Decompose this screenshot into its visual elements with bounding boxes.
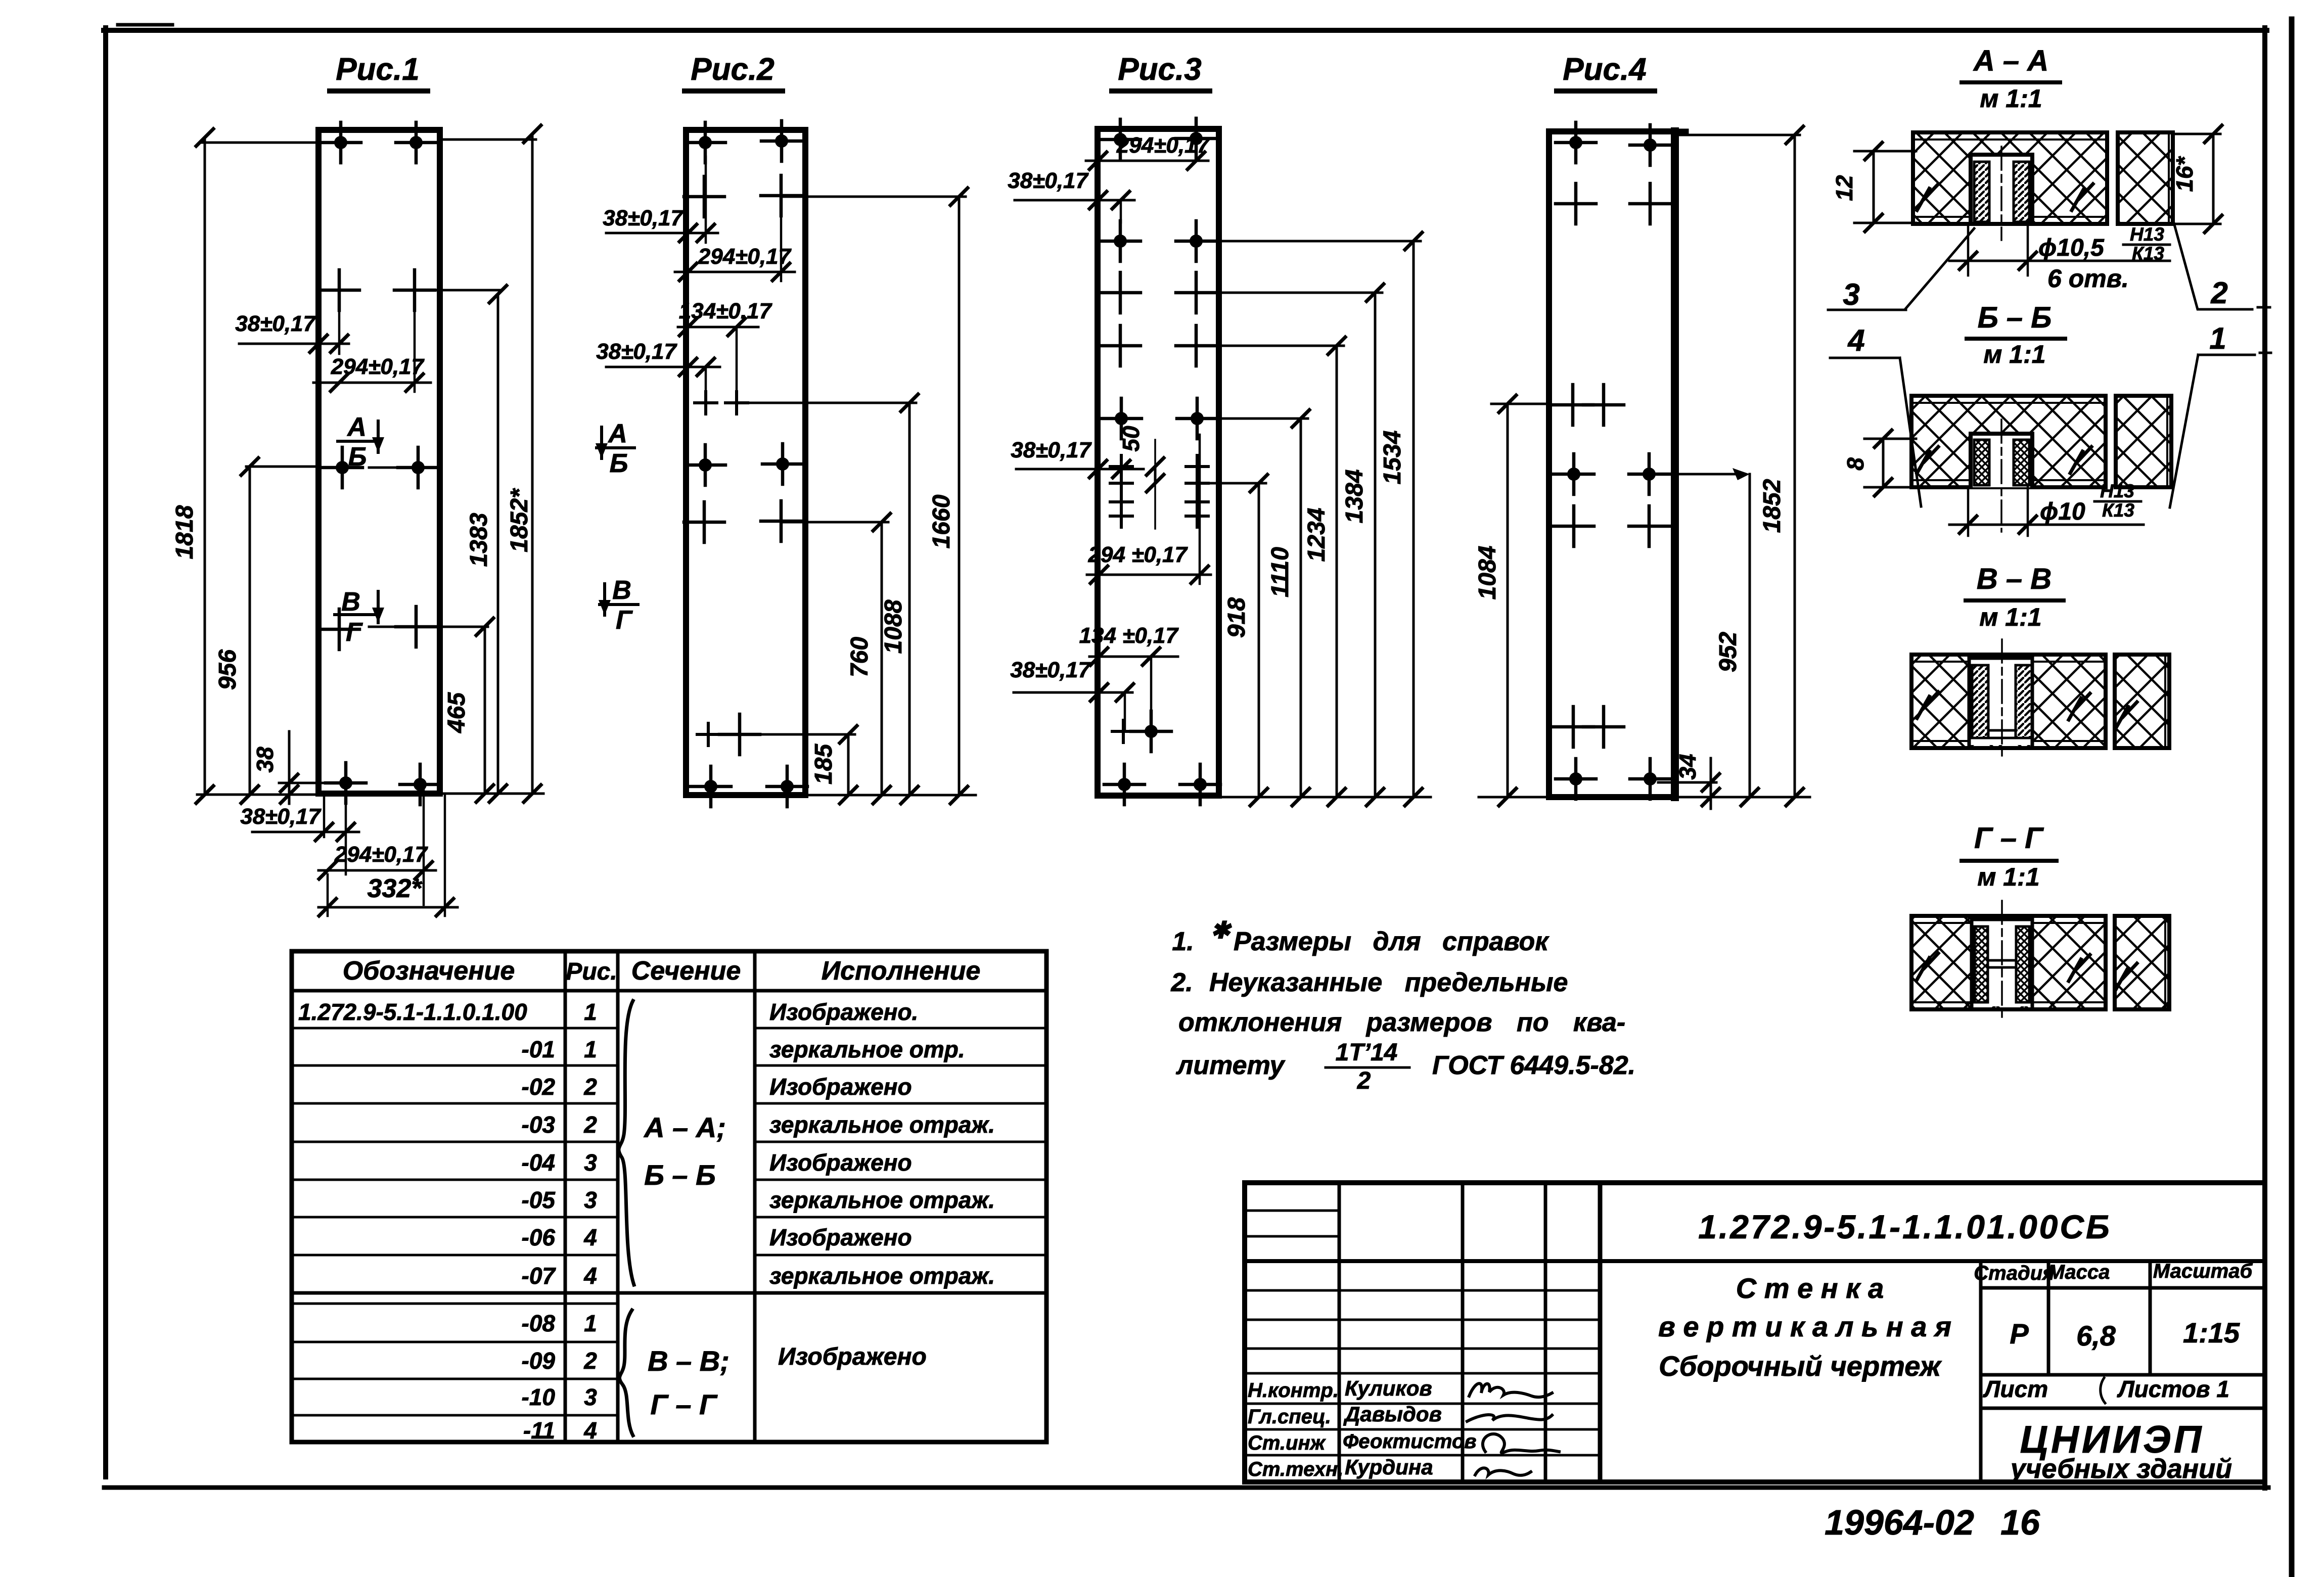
hole P3 row5-right bbox=[1177, 398, 1217, 439]
hole P4 row4-right bbox=[1629, 454, 1669, 494]
svg-text:Рис.3: Рис.3 bbox=[1118, 52, 1201, 87]
section Б-Б main block bbox=[1911, 396, 2106, 487]
hole P1 row2-left bbox=[319, 270, 359, 310]
P3 right extension lines bbox=[1196, 240, 1421, 243]
panel Рис.1 outline bbox=[318, 130, 440, 794]
svg-text:Ст.техн.: Ст.техн. bbox=[1248, 1458, 1343, 1480]
dimension 34 (P4 bottom) bbox=[1658, 781, 1716, 784]
svg-text:1.272.9-5.1-1.1.0.1.00: 1.272.9-5.1-1.1.0.1.00 bbox=[298, 999, 527, 1025]
svg-text:2: 2 bbox=[2210, 276, 2227, 310]
svg-text:Куликов: Куликов bbox=[1345, 1376, 1432, 1400]
svg-text:38±0,17: 38±0,17 bbox=[1008, 168, 1089, 193]
svg-text:-06: -06 bbox=[522, 1224, 556, 1250]
svg-text:956: 956 bbox=[214, 650, 241, 690]
hole P3 cluster right bbox=[1186, 491, 1208, 513]
svg-text:1383: 1383 bbox=[466, 513, 492, 567]
dimension 1534 (P3 right) bbox=[1405, 233, 1422, 806]
dimension 1852* (P1 right) bbox=[440, 138, 536, 141]
section Б-Б bolt recess bbox=[1971, 420, 2032, 532]
sheet frame left border bbox=[103, 28, 108, 1477]
hole P4 row2-left bbox=[1556, 183, 1596, 224]
svg-text:В – В;: В – В; bbox=[648, 1345, 730, 1377]
svg-text:294±0,17: 294±0,17 bbox=[698, 244, 792, 269]
scan artifact line top-left bbox=[118, 23, 172, 27]
svg-text:3: 3 bbox=[584, 1149, 597, 1176]
svg-text:В: В bbox=[612, 576, 631, 605]
svg-text:1: 1 bbox=[584, 999, 597, 1025]
scanned paper edge line bbox=[2289, 19, 2295, 1577]
hole P4 row3-mid bbox=[1583, 385, 1624, 425]
svg-text:4: 4 bbox=[583, 1224, 597, 1250]
svg-text:465: 465 bbox=[443, 692, 470, 733]
title block: document number cell bbox=[1600, 1259, 2265, 1263]
notes text bbox=[1170, 917, 1635, 1094]
break mark А-А right bbox=[2072, 184, 2093, 210]
svg-text:Н13: Н13 bbox=[2130, 224, 2164, 245]
svg-text:760: 760 bbox=[846, 637, 873, 677]
svg-text:К13: К13 bbox=[2132, 243, 2164, 264]
section А-А bolt recess bbox=[1971, 147, 2032, 240]
svg-text:1384: 1384 bbox=[1341, 470, 1368, 524]
dimension 12 (А-А) bbox=[1854, 150, 1916, 153]
svg-text:2: 2 bbox=[1357, 1068, 1371, 1094]
hole P4 top-right bbox=[1630, 125, 1670, 165]
svg-text:185: 185 bbox=[810, 744, 837, 784]
svg-text:К13: К13 bbox=[2102, 500, 2134, 521]
dimension 16* (А-А) bbox=[2174, 133, 2220, 135]
svg-text:1.272.9-5.1-1.1.01.00СБ: 1.272.9-5.1-1.1.01.00СБ bbox=[1698, 1208, 2112, 1245]
hole P3 cluster right bbox=[1186, 505, 1208, 527]
P1 bottom-right extension bbox=[440, 793, 543, 795]
hole P3 row10-left bbox=[1112, 720, 1134, 743]
panel Рис.2 outline bbox=[686, 130, 805, 795]
svg-text:-01: -01 bbox=[522, 1036, 555, 1062]
hole P3 row5-left bbox=[1101, 398, 1142, 439]
svg-text:2.: 2. bbox=[1170, 968, 1193, 997]
svg-text:Сечение: Сечение bbox=[631, 956, 741, 986]
P1 bottom extension baseline bbox=[197, 794, 327, 796]
hole P3 row10-mid bbox=[1131, 711, 1171, 752]
hole P3 bottom-left bbox=[1104, 764, 1145, 805]
svg-text:м 1:1: м 1:1 bbox=[1980, 84, 2042, 113]
hole P4 row5-right bbox=[1629, 506, 1669, 546]
hole P3 top-right bbox=[1176, 118, 1216, 159]
table braces bbox=[619, 1001, 634, 1285]
hole P4 row6-left bbox=[1553, 707, 1593, 747]
hole P2 А-row left bbox=[685, 445, 725, 485]
svg-text:Г: Г bbox=[346, 618, 363, 647]
table header texts bbox=[343, 956, 981, 986]
Б-Б hole dimension line bbox=[1967, 487, 1970, 536]
table col1 designations bbox=[298, 999, 556, 1444]
svg-text:38±0,17: 38±0,17 bbox=[235, 311, 316, 336]
svg-text:Г: Г bbox=[616, 606, 633, 635]
svg-text:-09: -09 bbox=[522, 1348, 556, 1374]
break mark Г-Г right bbox=[2069, 955, 2090, 981]
svg-text:зеркальное отраж.: зеркальное отраж. bbox=[769, 1187, 995, 1213]
svg-text:-05: -05 bbox=[522, 1187, 556, 1213]
hole P1 А-Б row left bbox=[322, 447, 362, 488]
svg-text:Лист: Лист bbox=[1983, 1376, 2048, 1402]
sheet frame top border bbox=[104, 28, 2267, 33]
P2 right extension lines bbox=[782, 196, 966, 198]
hole P3 cluster right bbox=[1186, 472, 1208, 494]
hole P1 bottom-left bbox=[326, 763, 366, 803]
hole P3 row3-right bbox=[1176, 272, 1216, 313]
svg-text:1818: 1818 bbox=[171, 505, 198, 559]
dimension 1383 (P1 right) bbox=[424, 289, 500, 292]
svg-text:зеркальное отраж.: зеркальное отраж. bbox=[769, 1111, 995, 1138]
svg-text:1:15: 1:15 bbox=[2183, 1317, 2240, 1349]
svg-text:2: 2 bbox=[583, 1111, 597, 1138]
P4 top extension bbox=[1677, 134, 1800, 136]
svg-text:В: В bbox=[341, 587, 360, 617]
section В-В small block bbox=[2115, 655, 2169, 748]
dimension 956 (P1 left) bbox=[246, 466, 319, 468]
hole P1 row2-right bbox=[394, 270, 435, 310]
svg-text:Размеры для справок: Размеры для справок bbox=[1234, 927, 1550, 956]
svg-text:34: 34 bbox=[1674, 754, 1701, 779]
hole P3 cluster right bbox=[1186, 455, 1208, 478]
svg-text:отклонения размеров по ква-: отклонения размеров по ква- bbox=[1178, 1008, 1625, 1037]
hole P1 bottom-right bbox=[400, 764, 440, 805]
sheet frame bottom border bbox=[104, 1486, 2268, 1490]
section В-В bolt hole bbox=[1969, 639, 2032, 761]
svg-text:4: 4 bbox=[583, 1417, 597, 1444]
hole P4 row3-left bbox=[1553, 385, 1593, 425]
svg-text:Р: Р bbox=[2010, 1318, 2029, 1350]
leader 3 bbox=[1906, 228, 1974, 308]
svg-text:Масштаб: Масштаб bbox=[2153, 1260, 2253, 1282]
hole P4 bottom-right bbox=[1630, 759, 1670, 799]
svg-text:50: 50 bbox=[1118, 426, 1144, 452]
svg-text:1110: 1110 bbox=[1267, 547, 1294, 597]
P4 bottom baseline bbox=[1479, 796, 1549, 799]
sheet frame right border bbox=[2262, 28, 2267, 1488]
title block: name cell texts bbox=[1658, 1272, 1951, 1382]
panel Рис.3 outline bbox=[1098, 129, 1219, 796]
svg-text:ϕ10: ϕ10 bbox=[2040, 498, 2085, 525]
P4 thick right edge bbox=[1671, 131, 1679, 797]
svg-text:38±0,17: 38±0,17 bbox=[596, 339, 677, 364]
hole P3 row2-left bbox=[1100, 221, 1141, 261]
svg-text:1: 1 bbox=[584, 1310, 597, 1336]
svg-text:учебных зданий: учебных зданий bbox=[2009, 1454, 2232, 1484]
svg-text:952: 952 bbox=[1715, 632, 1742, 672]
svg-text:в е р т и к а л ь н а я: в е р т и к а л ь н а я bbox=[1658, 1311, 1951, 1342]
break mark Б-Б right bbox=[2070, 447, 2091, 473]
svg-text:1852*: 1852* bbox=[506, 488, 533, 552]
dimension 918 (P3 right) bbox=[1250, 475, 1267, 806]
dimension 38 (P1 bottom-left vertical) bbox=[279, 782, 346, 784]
hole P1 top-right bbox=[396, 122, 436, 163]
svg-text:Неуказанные предельные: Неуказанные предельные bbox=[1209, 968, 1568, 997]
section Г-Г small block bbox=[2115, 916, 2169, 1009]
hole P2 row6-mid bbox=[719, 714, 760, 755]
hole P3 top-left bbox=[1100, 119, 1141, 160]
table header line bbox=[292, 989, 1046, 993]
hole P2 row2-right bbox=[761, 175, 801, 216]
svg-text:38±0,17: 38±0,17 bbox=[240, 804, 322, 829]
svg-text:1Т’14: 1Т’14 bbox=[1336, 1039, 1398, 1066]
svg-text:Б: Б bbox=[610, 449, 628, 478]
dimension 1818 (P1 left) bbox=[201, 142, 318, 144]
svg-text:1234: 1234 bbox=[1303, 508, 1330, 562]
svg-text:Н.контр.: Н.контр. bbox=[1248, 1379, 1339, 1402]
dimension 1234 (P3 right) bbox=[1328, 337, 1345, 806]
hole P2 top-left bbox=[685, 122, 725, 163]
svg-text:Изображено: Изображено bbox=[769, 1074, 912, 1100]
svg-text:А – А: А – А bbox=[1973, 44, 2048, 77]
А-А hole dimension line bbox=[1967, 224, 1970, 275]
svg-text:ГОСТ 6449.5-82.: ГОСТ 6449.5-82. bbox=[1432, 1051, 1635, 1080]
P3 bottom baseline bbox=[1219, 796, 1431, 799]
svg-text:Обозначение: Обозначение bbox=[343, 956, 515, 986]
svg-text:Рис.: Рис. bbox=[566, 958, 617, 985]
svg-text:3: 3 bbox=[1843, 277, 1859, 311]
hole P3 cluster left bbox=[1110, 491, 1132, 513]
P2 bottom baseline bbox=[805, 794, 976, 797]
svg-text:-03: -03 bbox=[522, 1111, 556, 1138]
table column lines bbox=[564, 951, 567, 1442]
svg-text:Б: Б bbox=[348, 442, 367, 472]
hole P3 row4-right bbox=[1176, 326, 1216, 366]
hole P3 cluster left bbox=[1110, 505, 1132, 527]
svg-text:Г – Г: Г – Г bbox=[1974, 822, 2044, 855]
svg-text:294±0,17: 294±0,17 bbox=[334, 842, 429, 867]
svg-text:16: 16 bbox=[2000, 1503, 2040, 1542]
svg-text:Исполнение: Исполнение bbox=[822, 956, 981, 986]
svg-text:зеркальное отраж.: зеркальное отраж. bbox=[769, 1263, 995, 1289]
dimension 1084 (P4 left) bbox=[1491, 403, 1550, 405]
section В-В main block bbox=[1911, 655, 2106, 748]
svg-text:-08: -08 bbox=[522, 1310, 556, 1336]
hole P2 row5-left bbox=[684, 502, 724, 542]
hole P3 row2-right bbox=[1176, 221, 1216, 261]
break mark Б-Б left bbox=[1917, 447, 1938, 473]
dimension 465 (P1 right) bbox=[425, 626, 488, 628]
svg-text:3: 3 bbox=[584, 1384, 597, 1410]
section А-А main block bbox=[1913, 132, 2107, 224]
svg-text:1: 1 bbox=[584, 1036, 597, 1062]
hole P1 top-left bbox=[321, 122, 361, 163]
svg-text:Гл.спец.: Гл.спец. bbox=[1248, 1406, 1331, 1428]
hole P2 А-row right bbox=[762, 444, 803, 484]
svg-text:зеркальное отр.: зеркальное отр. bbox=[769, 1036, 965, 1062]
svg-text:Н13: Н13 bbox=[2100, 481, 2134, 501]
svg-text:1084: 1084 bbox=[1474, 546, 1501, 600]
hole P2 row6-left bbox=[697, 723, 719, 746]
hole P3 bottom-right bbox=[1180, 764, 1220, 805]
hole P2 row3-mid bbox=[725, 392, 748, 414]
svg-text:Рис.4: Рис.4 bbox=[1563, 52, 1646, 87]
title block: stadia columns bbox=[1979, 1261, 1983, 1482]
hole P2 row2-left bbox=[684, 176, 724, 217]
hole P2 bottom-right bbox=[767, 766, 807, 807]
dimension 1852 (P4 right) bbox=[1786, 126, 1803, 806]
svg-text:Масса: Масса bbox=[2048, 1261, 2110, 1283]
hole P4 row4-left bbox=[1554, 454, 1594, 494]
svg-text:м 1:1: м 1:1 bbox=[1983, 340, 2045, 368]
svg-text:Давыдов: Давыдов bbox=[1343, 1402, 1442, 1426]
svg-text:134 ±0,17: 134 ±0,17 bbox=[1079, 623, 1179, 648]
hole P4 top-left bbox=[1556, 122, 1596, 163]
svg-text:12: 12 bbox=[1831, 175, 1857, 201]
svg-text:6,8: 6,8 bbox=[2076, 1320, 2116, 1352]
svg-text:В – В: В – В bbox=[1977, 563, 2052, 595]
hole P2 bottom-left bbox=[691, 766, 731, 807]
dimension 952 (P4 right) bbox=[1749, 474, 1751, 797]
break mark В-В right bbox=[2069, 693, 2090, 720]
section Б-Б small block bbox=[2116, 396, 2171, 487]
svg-text:-07: -07 bbox=[522, 1263, 557, 1289]
dimension 1660 (P2 right) bbox=[950, 188, 968, 804]
svg-text:6 отв.: 6 отв. bbox=[2047, 264, 2129, 293]
svg-text:Рис.1: Рис.1 bbox=[336, 52, 419, 87]
svg-text:Б – Б: Б – Б bbox=[644, 1159, 716, 1191]
svg-text:294±0,17: 294±0,17 bbox=[1116, 133, 1211, 158]
svg-text:Стадия: Стадия bbox=[1974, 1262, 2054, 1284]
svg-text:Изображено: Изображено bbox=[778, 1343, 927, 1370]
hole P2 row5-right bbox=[761, 501, 801, 541]
leader 2 bbox=[2172, 217, 2252, 309]
svg-text:м 1:1: м 1:1 bbox=[1977, 863, 2039, 891]
svg-text:А: А bbox=[346, 412, 367, 442]
svg-text:19964-02: 19964-02 bbox=[1825, 1503, 1974, 1542]
svg-text:1.: 1. bbox=[1172, 927, 1194, 956]
hole P3 cluster left bbox=[1110, 455, 1132, 478]
section Г-Г main block bbox=[1911, 916, 2106, 1009]
break mark Г-Г small block bbox=[2116, 963, 2137, 990]
svg-text:918: 918 bbox=[1223, 597, 1250, 638]
svg-text:8: 8 bbox=[1842, 457, 1869, 471]
svg-text:А – А;: А – А; bbox=[643, 1111, 726, 1143]
svg-text:2: 2 bbox=[583, 1074, 597, 1100]
P4 mid extension to 952 bbox=[1649, 473, 1745, 476]
svg-text:-02: -02 bbox=[522, 1074, 556, 1100]
svg-text:-10: -10 bbox=[522, 1384, 556, 1410]
svg-text:А: А bbox=[607, 419, 627, 448]
hole P3 row3-left bbox=[1100, 272, 1141, 313]
hole P4 row5-left bbox=[1554, 506, 1594, 546]
svg-text:Рис.2: Рис.2 bbox=[691, 52, 774, 87]
break mark В-В left bbox=[1917, 692, 1938, 718]
hole P3 cluster left bbox=[1110, 472, 1132, 494]
table col2 figure numbers bbox=[583, 999, 597, 1444]
svg-text:Феоктистов: Феоктистов bbox=[1343, 1430, 1477, 1453]
svg-text:38±0,17: 38±0,17 bbox=[1010, 658, 1091, 682]
table col4 execution texts bbox=[769, 999, 995, 1370]
title block: signature grid horizontals bbox=[1245, 1210, 1339, 1212]
svg-text:Сборочный чертеж: Сборочный чертеж bbox=[1659, 1350, 1942, 1382]
svg-text:-04: -04 bbox=[522, 1149, 555, 1176]
svg-text:-11: -11 bbox=[523, 1417, 555, 1444]
panel Рис.4 outline bbox=[1549, 131, 1675, 797]
dimension 1110 (P3 right) bbox=[1292, 410, 1309, 806]
hole P1 В-Г row left bbox=[319, 609, 359, 650]
svg-text:Б – Б: Б – Б bbox=[1978, 301, 2052, 334]
dimension 1088 (P2 right) bbox=[901, 394, 918, 804]
svg-text:1088: 1088 bbox=[880, 599, 907, 654]
svg-text:Листов 1: Листов 1 bbox=[2117, 1376, 2229, 1402]
svg-text:332*: 332* bbox=[368, 874, 423, 903]
dimension 760 (P2 right) bbox=[873, 514, 890, 804]
hole P4 row2-right bbox=[1630, 183, 1670, 224]
svg-text:Изображено: Изображено bbox=[769, 1224, 912, 1250]
break mark Г-Г left bbox=[1917, 953, 1938, 980]
svg-text:38±0,17: 38±0,17 bbox=[1011, 438, 1092, 462]
dimension 185 (P2 right) bbox=[840, 726, 857, 804]
svg-text:литету: литету bbox=[1175, 1051, 1286, 1080]
P3 dim 50 (cluster) bbox=[1147, 458, 1164, 492]
hole P3 row4-left bbox=[1100, 326, 1141, 366]
hole P2 row3-left bbox=[695, 392, 717, 414]
hole P4 row6-mid bbox=[1583, 707, 1624, 747]
title block: signature grid verticals bbox=[1338, 1183, 1341, 1482]
table row lines bbox=[292, 1027, 618, 1030]
signature squiggles bbox=[1469, 1383, 1552, 1397]
hole P2 top-right bbox=[761, 121, 802, 161]
break mark А-А left bbox=[1917, 184, 1938, 210]
dimension 1384 (P3 right) bbox=[1366, 284, 1384, 806]
title block role/name texts bbox=[1248, 1376, 1477, 1480]
svg-text:1852: 1852 bbox=[1759, 479, 1786, 533]
section Г-Г bolt hole bbox=[1972, 901, 2032, 1022]
title block outer frame bbox=[1245, 1183, 2265, 1482]
svg-text:✱: ✱ bbox=[1211, 917, 1232, 943]
svg-text:16*: 16* bbox=[2171, 156, 2198, 192]
svg-text:4: 4 bbox=[583, 1263, 597, 1289]
hole P1 В-Г row right bbox=[396, 607, 436, 647]
svg-text:2: 2 bbox=[583, 1348, 597, 1374]
svg-text:Курдина: Курдина bbox=[1345, 1455, 1433, 1479]
svg-text:1534: 1534 bbox=[1379, 431, 1406, 485]
section А-А small block bbox=[2118, 132, 2173, 224]
svg-text:1660: 1660 bbox=[928, 494, 955, 548]
svg-text:1: 1 bbox=[2209, 321, 2226, 355]
svg-text:Ст.инж: Ст.инж bbox=[1248, 1432, 1327, 1454]
svg-text:Изображено.: Изображено. bbox=[769, 999, 918, 1025]
executions table frame bbox=[292, 951, 1046, 1442]
svg-text:С т е н к а: С т е н к а bbox=[1736, 1272, 1884, 1304]
hole P1 А-Б row right bbox=[398, 447, 438, 488]
svg-text:Изображено: Изображено bbox=[769, 1149, 912, 1176]
svg-text:ϕ10,5: ϕ10,5 bbox=[2038, 235, 2105, 261]
svg-text:Г – Г: Г – Г bbox=[650, 1388, 718, 1420]
hole P4 bottom-left bbox=[1556, 759, 1596, 799]
dimension 8 (Б-Б) bbox=[1864, 438, 1916, 440]
svg-text:294 ±0,17: 294 ±0,17 bbox=[1088, 542, 1189, 567]
break mark В-В small block bbox=[2116, 702, 2137, 728]
svg-text:м 1:1: м 1:1 bbox=[1979, 603, 2041, 631]
svg-text:3: 3 bbox=[584, 1187, 597, 1213]
svg-text:38: 38 bbox=[252, 747, 278, 773]
svg-text:38±0,17: 38±0,17 bbox=[603, 206, 684, 230]
svg-text:4: 4 bbox=[1847, 323, 1864, 357]
